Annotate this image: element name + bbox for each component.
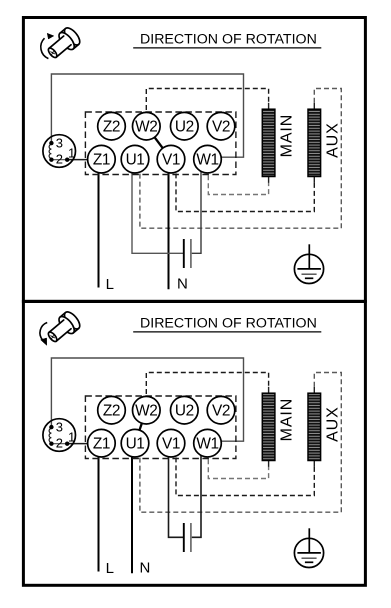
wire: W1 to MAIN winding bottom (dashed) [208,443,268,478]
title underline [133,47,321,49]
svg-text:AUX: AUX [325,406,342,442]
terminal W2 [133,112,161,140]
aux winding coil [313,103,315,109]
link pin 2 to pin 1 [51,159,67,161]
terminal V2 [207,396,235,424]
terminal U1 [121,145,149,173]
wire: W1 to capacitor right [192,443,201,537]
svg-text:U2: U2 [175,403,194,420]
terminal block outline (dashed) [85,112,236,175]
terminal block outline (dashed) [85,396,236,459]
svg-text:1: 1 [68,429,75,444]
svg-text:V2: V2 [212,119,230,136]
svg-text:AUX: AUX [325,122,342,158]
wire: U1 to mains N [131,443,133,573]
protector coil between pin 3 and pin 2 [49,429,51,443]
svg-text:2: 2 [56,152,63,167]
aux winding coil [313,387,315,393]
terminal W1 [194,429,222,457]
wire: protector pin 1 to terminal Z1 (solid) [67,159,101,161]
terminal U1 [121,429,149,457]
svg-text:N: N [140,560,151,577]
svg-text:V1: V1 [162,436,180,453]
rotation direction arrow (cw) [41,38,49,58]
terminal W2 [133,396,161,424]
svg-text:Z1: Z1 [93,152,110,169]
protector coil between pin 3 and pin 2 [49,145,51,159]
svg-text:V2: V2 [212,403,230,420]
terminal Z2 [98,112,126,140]
terminal W1 [194,145,222,173]
svg-text:U2: U2 [175,119,194,136]
svg-text:V1: V1 [162,152,180,169]
svg-text:U1: U1 [126,152,145,169]
protective earth (ground) symbol [294,538,323,567]
pin 3 [49,141,53,145]
rotation direction arrow (ccw) [40,323,47,341]
svg-text:Z2: Z2 [103,119,120,136]
pin 3 [49,425,53,429]
svg-text:Z2: Z2 [103,403,120,420]
panel border (bottom diagram) [23,302,365,586]
svg-text:1: 1 [68,145,75,160]
wire: W1 to MAIN winding bottom (dashed) [208,159,268,194]
svg-text:DIRECTION OF ROTATION: DIRECTION OF ROTATION [140,32,317,48]
svg-text:MAIN: MAIN [278,114,295,158]
wire: U1 to capacitor left [132,159,183,253]
terminal Z1 [88,145,116,173]
wire: V1 to AUX winding bottom (dashed) [176,443,314,495]
wire: U1 to AUX winding top (dashed) [140,89,341,229]
pin 1 [65,442,69,446]
wire: protector pin 3 to terminal W1 (solid) [51,358,243,441]
wire: U1 to AUX winding top (dashed) [140,373,341,513]
protective earth (ground) symbol [294,254,323,283]
wire: protector pin 3 to terminal W1 (solid) [51,74,243,157]
terminal V1 [157,145,185,173]
terminal U2 [171,396,199,424]
wire: V1 to AUX winding bottom (dashed) [176,159,314,211]
pin 1 [65,158,69,162]
svg-text:U1: U1 [126,436,145,453]
wire: Z1 to mains L [98,443,100,571]
wire: protector pin 1 to terminal Z1 (solid) [67,443,101,445]
wire: V1 to capacitor left [169,443,184,537]
jumper link W2 to U1 [135,410,146,443]
terminal V2 [207,112,235,140]
pin 2 [49,158,53,162]
wire: W2 to MAIN winding top (dashed) [146,373,268,411]
wire: W2 to MAIN winding top (dashed) [146,89,268,127]
svg-text:3: 3 [56,420,63,435]
svg-text:L: L [106,276,114,293]
wire: Z1 to mains L [98,159,100,287]
svg-text:MAIN: MAIN [278,398,295,442]
main winding coil [268,103,270,109]
svg-text:DIRECTION OF ROTATION: DIRECTION OF ROTATION [140,316,317,332]
capacitor C (between V1 and W1) [183,523,185,552]
svg-text:W2: W2 [135,403,157,420]
main winding coil [268,387,270,393]
thermal protector connector (circle with pins 3,2,1) [43,419,76,452]
terminal Z2 [98,396,126,424]
title underline [133,331,321,333]
svg-text:Z1: Z1 [93,436,110,453]
wire: W1 to capacitor right [192,159,201,253]
terminal Z1 [88,429,116,457]
rotation icon: motor shaft end (A) [44,25,83,62]
rotation icon: motor shaft end (B) [44,309,83,346]
terminal V1 [157,429,185,457]
svg-text:3: 3 [56,136,63,151]
svg-text:W2: W2 [135,119,157,136]
svg-text:2: 2 [56,436,63,451]
jumper link W2 to V1 [146,126,171,159]
thermal protector connector (circle with pins 3,2,1) [43,135,76,168]
wire: V1 to mains N [168,159,170,289]
svg-text:W1: W1 [196,152,218,169]
terminal U2 [171,112,199,140]
svg-text:N: N [177,276,188,293]
capacitor C (between U1 and W1) [183,239,185,268]
pin 2 [49,442,53,446]
svg-text:W1: W1 [196,436,218,453]
panel border (top diagram) [23,18,365,302]
svg-text:L: L [106,560,114,577]
link pin 2 to pin 1 [51,443,67,445]
